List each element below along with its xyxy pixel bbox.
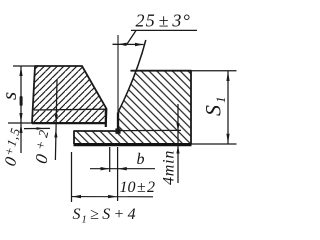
left plate thicker bottom edge bbox=[32, 122, 106, 124]
gap dimension line x=56 bbox=[55, 80, 57, 160]
10±2 dimension line bbox=[72, 195, 154, 198]
small arrow on reference line bbox=[37, 127, 45, 130]
b dimension line with outside arrows bbox=[90, 167, 155, 170]
right plate thick bottom edge bbox=[74, 143, 192, 146]
left plate outline (hatched /) bbox=[32, 66, 107, 123]
root face overshoot strokes (heavy ink at joint) bbox=[105, 109, 107, 128]
s / gap dimension extension line bottom (y=123) bbox=[8, 122, 32, 124]
angle leader line and shelf bbox=[127, 30, 197, 44]
S1 arrows bbox=[226, 71, 229, 143]
svg-text:b: b bbox=[137, 151, 145, 168]
S1 dimension line bbox=[227, 71, 229, 144]
left plate inner step line bbox=[34, 108, 106, 111]
ink blot on s dimension line bbox=[20, 96, 23, 106]
s dimension arrows bbox=[19, 67, 22, 134]
b / 10±2 shared extension line right bbox=[117, 147, 119, 201]
vertical construction line at groove root bbox=[117, 35, 119, 113]
svg-text:25 ± 3°: 25 ± 3° bbox=[136, 11, 191, 31]
4min step extension line bbox=[118, 129, 181, 131]
right plate with backing lip (hatched \) bbox=[74, 71, 191, 144]
angle dimension double arrow bbox=[113, 43, 144, 47]
svg-text:s: s bbox=[0, 92, 21, 100]
vertical dimension line x=21 bbox=[20, 66, 22, 153]
right plate bevel edge with construction extension bbox=[118, 40, 146, 113]
svg-text:4min: 4min bbox=[161, 150, 178, 185]
S1 top extension line bbox=[192, 70, 237, 72]
4min arrows bbox=[176, 123, 179, 154]
svg-text:10 ± 2: 10 ± 2 bbox=[120, 179, 155, 196]
4min dimension line bbox=[177, 104, 179, 183]
10±2 extension line left (lip edge) bbox=[71, 152, 73, 202]
S1 bottom extension line bbox=[192, 143, 237, 145]
gap dimension arrows (0+2) bbox=[54, 115, 58, 138]
s dimension top extension line bbox=[13, 65, 35, 67]
b extension line left bbox=[109, 147, 111, 172]
lip top reference extension line bbox=[24, 127, 50, 129]
